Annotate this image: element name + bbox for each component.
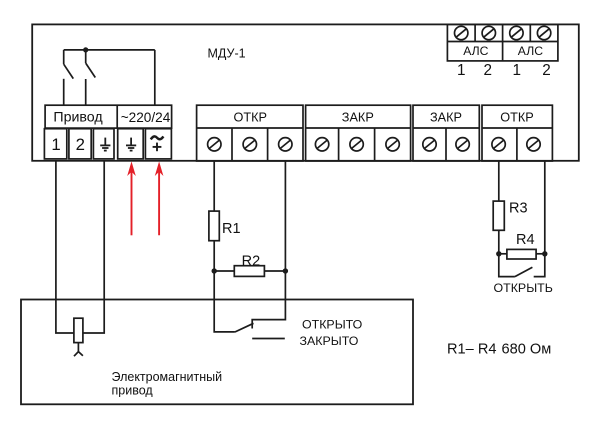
pushbutton left lead [499,254,515,277]
svg-text:ОТКР: ОТКР [233,111,266,125]
АЛС screw terminal 3 [510,26,523,39]
left contact of drive switch [64,50,74,105]
svg-text:2: 2 [76,135,85,154]
svg-text:R3: R3 [509,200,528,216]
wire ОТКР1 screw3 down to node B [284,161,286,271]
Привод / ~220/24 label box [45,105,172,128]
АЛС screw terminal 1 [455,26,468,39]
svg-text:2: 2 [484,62,493,79]
wire ОТКР2 screw1 down to R3 [498,161,500,201]
earth symbol in cell 4 [126,138,136,151]
lead R4 to node D [536,253,545,255]
ЗАКР1 screw 2 [350,138,363,151]
АЛС screw terminal 4 [537,26,550,39]
lead node C to R4 [499,253,507,255]
lead R2 to node B [264,270,285,272]
svg-text:2: 2 [542,62,551,79]
wire from terminal 1 down to coil [56,161,74,333]
terminal cell 2 [69,129,91,159]
red arrow into terminal 5 [155,161,164,235]
wire node A down to limit switch [214,271,235,332]
svg-text:ЗАКР: ЗАКР [430,111,462,125]
svg-text:R4: R4 [516,232,535,248]
ОТКР block 1 [197,105,303,161]
svg-text:1: 1 [513,62,522,79]
pushbutton blade (open) [515,267,533,276]
svg-text:МДУ-1: МДУ-1 [208,47,246,61]
ОТКР1 screw 3 [279,138,292,151]
wire node B down to upper contact [252,271,285,329]
МДУ-1 device outline [32,24,579,160]
node B junction dot [283,268,288,273]
node D junction dot [542,251,547,256]
right contact of drive switch [86,50,96,105]
ОТКР1 screw 1 [208,138,221,151]
svg-text:R1: R1 [222,221,241,237]
wire R1 to node A [213,241,215,271]
wire from terminal 3 down to coil [83,161,104,333]
svg-text:R2: R2 [242,253,261,269]
terminal cell 1 [44,129,66,159]
resistor R3 [493,201,504,230]
svg-text:680 Ом: 680 Ом [502,342,552,358]
ОТКР2 screw 1 [492,138,505,151]
resistor R4 [507,249,536,259]
terminal cell 4 (earth) [118,129,144,159]
node C junction dot [496,251,501,256]
node A junction dot [212,268,217,273]
ЗАКР block 2 [413,105,479,161]
svg-text:1: 1 [51,135,60,154]
svg-text:ОТКР: ОТКР [500,111,533,125]
ОТКР block 2 [482,105,552,161]
svg-text:~220/24: ~220/24 [121,110,171,125]
svg-text:ЗАКР: ЗАКР [342,111,374,125]
svg-text:привод: привод [112,384,154,398]
ЗАКР block 1 [306,105,411,161]
~ + symbol in cell 5 [151,136,164,151]
ЗАКР1 screw 1 [315,138,328,151]
limit switch blade (ОТКРЫТО position) [235,323,254,332]
wire ОТКР1 screw1 down to R1 [213,161,215,211]
electromagnet coil element [74,318,83,342]
ЗАКР2 screw 2 [456,138,469,151]
svg-text:Привод: Привод [53,110,103,126]
wire from top loop down to ~220/24 [154,50,156,105]
svg-text:ОТКРЫТО: ОТКРЫТО [302,317,363,331]
svg-text:ОТКРЫТЬ: ОТКРЫТЬ [494,281,553,295]
svg-text:АЛС: АЛС [463,44,488,58]
wire from device bottom down to node D [544,161,546,254]
armature fork symbol [74,343,83,357]
red arrow into terminal 4 [127,161,136,235]
АЛС terminal block outline [447,24,558,61]
lower contact line (ЗАКРЫТО) [252,338,285,340]
ЗАКР2 screw 1 [423,138,436,151]
terminal cell 5 (~ +) [145,129,171,159]
terminal cell 3 (earth) [93,129,114,159]
resistor R2 [234,266,264,277]
lead node A to R2 [214,270,234,272]
svg-text:1: 1 [457,62,466,79]
pushbutton right lead [534,254,545,277]
earth symbol in cell 3 [100,138,110,151]
svg-text:ЗАКРЫТО: ЗАКРЫТО [300,334,359,348]
ОТКР2 screw 2 [527,138,540,151]
junction dot [83,47,88,52]
svg-text:R1– R4: R1– R4 [447,342,496,358]
resistor R1 [209,211,219,241]
svg-text:АЛС: АЛС [518,44,543,58]
АЛС screw terminal 2 [482,26,495,39]
Электромагнитный привод label [112,370,223,398]
ОТКР1 screw 2 [243,138,256,151]
wire R3 to node C [498,230,500,254]
Электромагнитный привод box [21,300,413,405]
svg-text:Электромагнитный: Электромагнитный [112,370,223,384]
ЗАКР1 screw 3 [386,138,399,151]
switch contact pair above Привод : top wire [64,49,155,51]
